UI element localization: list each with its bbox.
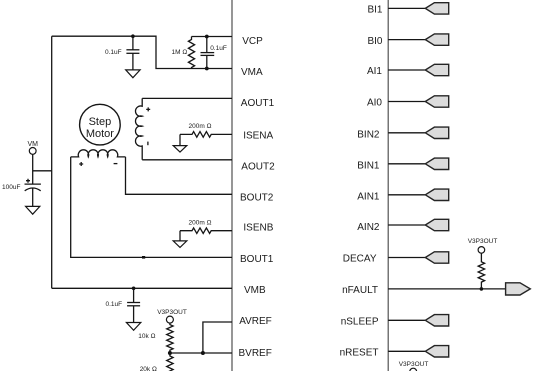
terminal input DECAY <box>425 252 448 263</box>
svg-text:ISENB: ISENB <box>243 223 273 234</box>
op IC U1 left edge <box>231 0 233 371</box>
svg-text:AOUT2: AOUT2 <box>241 161 275 172</box>
terminal output nFAULT <box>506 283 531 295</box>
svg-text:100uF: 100uF <box>2 184 20 191</box>
svg-text:200m Ω: 200m Ω <box>189 123 212 130</box>
wire nRESET net <box>388 350 425 352</box>
svg-text:1M Ω: 1M Ω <box>172 49 188 56</box>
node tie on BOUT1 wire <box>142 256 145 259</box>
svg-text:BOUT2: BOUT2 <box>240 193 274 204</box>
ground below top-left 0.1uF <box>126 70 140 78</box>
wire VM branch to bus <box>33 170 52 172</box>
svg-text:VMB: VMB <box>244 285 266 296</box>
svg-text:DECAY: DECAY <box>343 253 377 264</box>
svg-text:AI0: AI0 <box>367 98 382 109</box>
node junction VCP/cap <box>205 35 209 39</box>
capacitor 0.1uF VM bypass (top left) <box>126 36 139 69</box>
svg-text:nSLEEP: nSLEEP <box>341 317 379 328</box>
wire VM top rail to VMA <box>52 36 232 68</box>
svg-text:0.1uF: 0.1uF <box>105 49 122 56</box>
terminal input AI1 <box>425 64 448 75</box>
wire DECAY net <box>388 257 425 259</box>
svg-text:BVREF: BVREF <box>239 348 272 359</box>
resistor 200m ISENA <box>180 132 232 138</box>
ground below 100uF <box>26 206 40 214</box>
svg-text:10k Ω: 10k Ω <box>138 333 155 340</box>
svg-text:AIN1: AIN1 <box>357 192 380 203</box>
wire VM terminal down to 100uF <box>32 154 34 184</box>
label winding B plus <box>79 162 83 166</box>
svg-text:BI1: BI1 <box>367 5 382 16</box>
label winding A minus <box>147 142 149 146</box>
inductor winding B (horizontal) <box>71 150 126 157</box>
terminal V3P3OUT (left divider) <box>166 316 173 323</box>
svg-text:BIN1: BIN1 <box>357 161 380 172</box>
ground ISENB <box>173 241 187 248</box>
wire AIN1 net <box>388 194 425 196</box>
wire AIN2 net <box>388 224 425 226</box>
node junction divider/BVREF <box>168 351 172 355</box>
terminal input AIN2 <box>425 219 448 230</box>
capacitor 100uF polarized <box>25 184 41 206</box>
terminal V3P3OUT (nFAULT pullup) <box>478 247 485 254</box>
wire ISENB ground drop <box>179 231 181 241</box>
svg-text:VM: VM <box>27 141 38 148</box>
svg-text:VCP: VCP <box>242 36 263 47</box>
svg-text:20k Ω: 20k Ω <box>140 366 157 371</box>
terminal input BI1 <box>425 3 448 14</box>
svg-text:VMA: VMA <box>241 67 263 78</box>
label winding A plus <box>146 107 150 111</box>
wire VCP net <box>192 36 233 38</box>
svg-text:nFAULT: nFAULT <box>342 285 378 296</box>
wire AVREF net <box>203 322 232 353</box>
inductor winding A (vertical) <box>135 98 142 159</box>
terminal input AIN1 <box>425 189 448 200</box>
wire nSLEEP net <box>388 319 425 321</box>
svg-text:V3P3OUT: V3P3OUT <box>399 361 429 368</box>
svg-text:AIN2: AIN2 <box>357 222 380 233</box>
node junction nFAULT pullup <box>480 287 484 291</box>
terminal input nRESET <box>425 346 448 357</box>
label plus sign 100uF <box>26 179 30 183</box>
wire VMB net <box>52 287 232 289</box>
capacitor 0.1uF VMB bypass <box>127 288 140 322</box>
resistor 10k <box>167 323 173 353</box>
svg-text:Motor: Motor <box>86 128 114 140</box>
svg-text:200m Ω: 200m Ω <box>189 220 212 227</box>
svg-text:BI0: BI0 <box>367 36 382 47</box>
svg-text:ISENA: ISENA <box>243 131 273 142</box>
capacitor 0.1uF between VCP and VMA <box>201 37 215 69</box>
node junction VM rail / bypass cap <box>131 34 135 38</box>
svg-text:AOUT1: AOUT1 <box>241 98 275 109</box>
wire AI1 net <box>388 69 425 71</box>
wire AOUT1 net <box>142 97 232 99</box>
svg-text:V3P3OUT: V3P3OUT <box>468 238 498 245</box>
svg-text:0.1uF: 0.1uF <box>210 45 227 52</box>
step motor M1 <box>80 104 121 145</box>
resistor 1M vertical between VCP and VMA <box>188 37 194 69</box>
wire winding B left lead to BOUT1 <box>71 157 232 258</box>
svg-text:AVREF: AVREF <box>239 316 272 327</box>
svg-text:BIN2: BIN2 <box>357 130 380 141</box>
svg-text:V3P3OUT: V3P3OUT <box>157 309 187 316</box>
wire VM bus vertical <box>51 36 53 288</box>
svg-text:AI1: AI1 <box>367 66 382 77</box>
terminal V3P3OUT bottom (cropped) <box>410 368 417 371</box>
terminal input BIN1 <box>425 158 448 169</box>
wire BI0 net <box>388 39 425 41</box>
op IC U1 right edge <box>387 0 389 371</box>
terminal input BIN2 <box>425 127 448 138</box>
terminal VM <box>29 148 36 155</box>
resistor 20k (cropped at bottom) <box>167 353 173 371</box>
wire nFAULT net <box>388 288 505 290</box>
terminal input BI0 <box>425 34 448 45</box>
node junction AVREF/BVREF <box>201 351 205 355</box>
terminal input nSLEEP <box>425 315 448 326</box>
wire winding B right lead to BOUT2 <box>126 157 233 194</box>
node junction VMA/cap <box>205 67 209 71</box>
wire AOUT2 net <box>142 159 232 161</box>
wire BVREF net <box>170 352 232 354</box>
wire BIN2 net <box>388 132 425 134</box>
ground below VMB 0.1uF <box>126 323 140 331</box>
wire BIN1 net <box>388 163 425 165</box>
resistor 200m ISENB <box>180 228 232 234</box>
resistor nFAULT pullup <box>478 253 484 289</box>
wire BI1 net <box>388 7 425 9</box>
wire AI0 net <box>388 101 425 103</box>
label winding B minus <box>114 163 118 165</box>
svg-text:Step: Step <box>89 116 112 128</box>
svg-text:nRESET: nRESET <box>340 348 379 359</box>
terminal input AI0 <box>425 96 448 107</box>
ground ISENA <box>173 146 187 153</box>
wire ISENA ground drop <box>179 134 181 145</box>
svg-text:0.1uF: 0.1uF <box>106 301 123 308</box>
svg-text:BOUT1: BOUT1 <box>240 254 274 265</box>
node junction VMB / bypass cap <box>132 287 136 291</box>
